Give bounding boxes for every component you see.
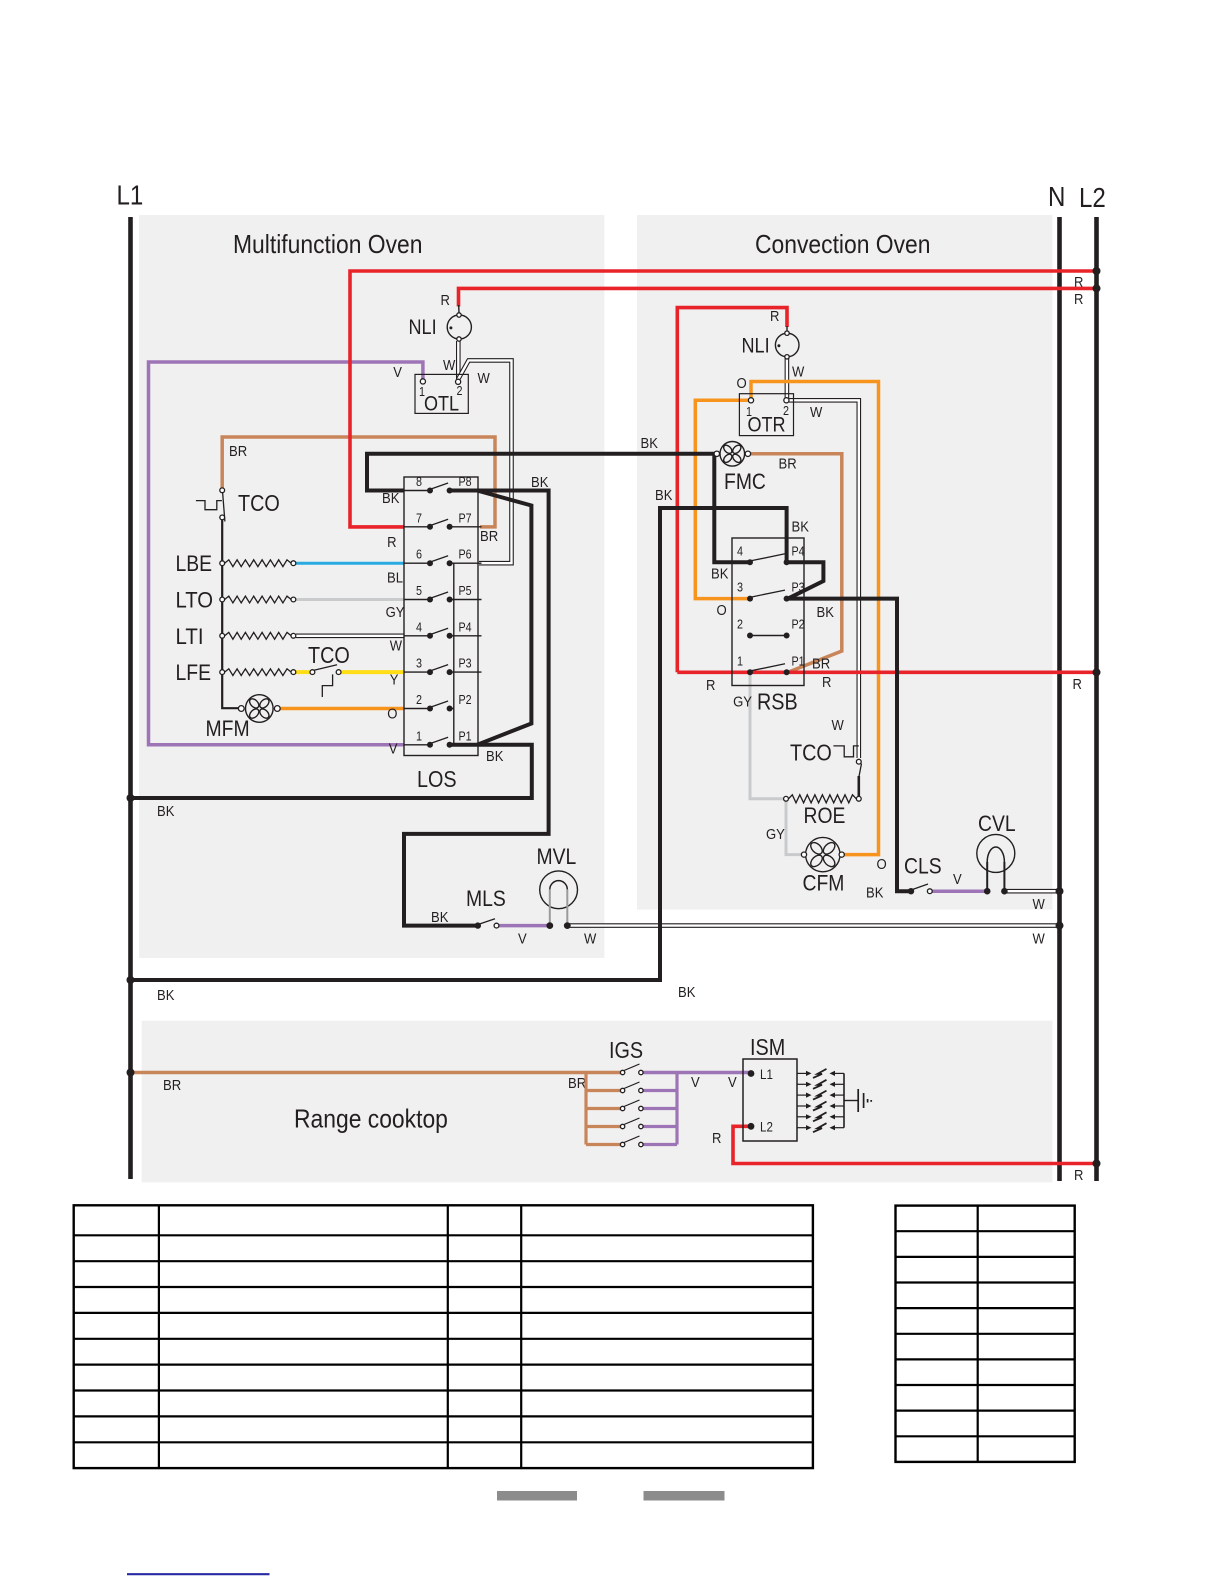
svg-text:P8: P8 (459, 475, 472, 489)
selector switch LOS (404, 475, 482, 792)
oven lamp MVL (537, 844, 578, 929)
svg-text:BR: BR (812, 656, 830, 673)
svg-text:O: O (387, 706, 397, 723)
wire BK L1 to RSB P4 (131, 487, 809, 1004)
wire Y TCO to LOS pin 3 (341, 672, 404, 689)
svg-text:P2: P2 (792, 618, 805, 632)
wire W LTI element to LOS pin 4 (296, 636, 404, 655)
legend table right (896, 1206, 1075, 1462)
svg-text:BR: BR (229, 443, 247, 460)
svg-text:GY: GY (733, 694, 752, 711)
junction L1 BR IGS (127, 1069, 135, 1077)
wire W CVL to N (1004, 891, 1059, 913)
svg-text:V: V (393, 364, 402, 381)
wire W NLI-right to OTR pin 2 (787, 356, 805, 398)
wire BL LBE element to LOS pin 6 (296, 563, 404, 586)
igniter switches IGS (609, 1037, 643, 1147)
junction L2 red second (1093, 284, 1101, 292)
element bus TCO to MFM (222, 519, 239, 709)
svg-text:OTR: OTR (747, 414, 785, 437)
svg-text:W: W (1033, 931, 1046, 948)
svg-text:BK: BK (866, 885, 883, 902)
svg-text:W: W (478, 370, 491, 387)
svg-text:BR: BR (163, 1077, 181, 1094)
relay switch block RSB (732, 538, 805, 715)
svg-text:W: W (792, 364, 805, 381)
svg-text:BK: BK (531, 474, 548, 491)
svg-text:OTL: OTL (424, 393, 459, 416)
heating element ROE (784, 795, 862, 828)
svg-text:R: R (387, 534, 396, 551)
fan motor CFM (801, 837, 844, 895)
wire BK LOS P1 to L1 (131, 745, 532, 820)
svg-text:LBE: LBE (176, 551, 213, 576)
heating element LTO (176, 588, 296, 613)
wire BR FMC to RSB P1 (748, 454, 842, 673)
svg-text:8: 8 (416, 475, 422, 489)
svg-text:P7: P7 (459, 511, 472, 525)
svg-text:TCO: TCO (308, 642, 350, 668)
svg-text:7: 7 (416, 511, 422, 525)
svg-text:Multifunction Oven: Multifunction Oven (233, 229, 423, 259)
thermal cutout TCO2 (308, 642, 350, 697)
svg-text:TCO: TCO (790, 740, 832, 766)
wire GY ROE to CFM (766, 802, 802, 855)
motor MFM (206, 695, 281, 741)
svg-text:1: 1 (416, 729, 422, 743)
rail L1 (117, 180, 144, 1180)
oven lamp CVL (977, 811, 1016, 895)
wire BK LOS P8 to P1 jumper (477, 491, 531, 745)
label Convection Oven (755, 229, 931, 259)
svg-text:MVL: MVL (537, 844, 577, 869)
svg-text:IGS: IGS (609, 1037, 643, 1063)
junction N MVL white (1056, 922, 1064, 930)
svg-text:W: W (1033, 896, 1046, 913)
svg-text:BK: BK (817, 604, 834, 621)
svg-text:L2: L2 (760, 1120, 773, 1135)
svg-text:L2: L2 (1079, 182, 1106, 213)
heating element LFE (176, 660, 296, 685)
wire BR IGS bus (586, 1073, 621, 1145)
svg-text:Convection Oven: Convection Oven (755, 229, 931, 259)
svg-text:2: 2 (416, 693, 422, 707)
spark gaps (797, 1069, 844, 1132)
svg-text:V: V (389, 741, 398, 758)
svg-text:P2: P2 (459, 693, 472, 707)
svg-text:Y: Y (390, 672, 399, 689)
light switch OTR (739, 394, 793, 437)
svg-text:W: W (832, 717, 845, 734)
oven lamp NLI left (409, 313, 472, 341)
svg-text:BK: BK (157, 987, 174, 1004)
svg-text:P1: P1 (459, 729, 472, 743)
svg-text:BR: BR (568, 1075, 586, 1092)
label Range cooktop (294, 1104, 448, 1134)
svg-text:BK: BK (792, 519, 809, 536)
svg-text:2: 2 (737, 618, 743, 632)
svg-text:Range cooktop: Range cooktop (294, 1104, 448, 1134)
junction L2 red RSB (1093, 668, 1101, 676)
convection oven panel (637, 215, 1053, 910)
svg-text:LFE: LFE (176, 660, 212, 685)
svg-text:R: R (1074, 1167, 1083, 1184)
svg-text:N: N (1048, 181, 1065, 212)
svg-text:LTI: LTI (176, 624, 204, 649)
wire O OTR pin 1 to CFM (737, 375, 887, 873)
spark module ISM (743, 1034, 797, 1141)
svg-text:R: R (1074, 291, 1083, 308)
svg-text:BR: BR (480, 528, 498, 545)
heating element LTI (176, 624, 296, 649)
svg-text:CFM: CFM (803, 871, 845, 896)
range cooktop panel (142, 1021, 1053, 1183)
wire V OTL pin 1 to LOS pin 1 (149, 362, 423, 758)
svg-text:BK: BK (678, 984, 695, 1001)
wire BR TCO to LOS P7 (222, 437, 498, 545)
svg-text:GY: GY (386, 604, 405, 621)
svg-text:ISM: ISM (750, 1034, 785, 1060)
wire BK FMC to LOS pin 8 (367, 435, 716, 507)
wire W MVL to N (567, 926, 1060, 948)
light switch MLS (466, 886, 506, 929)
svg-text:3: 3 (416, 657, 422, 671)
label Multifunction Oven (233, 229, 423, 259)
wire V MLS to MVL (497, 926, 550, 948)
svg-text:R: R (770, 308, 779, 325)
svg-text:LTO: LTO (176, 588, 214, 613)
thermal cutout TCO3 (790, 740, 862, 797)
legend table left (74, 1205, 813, 1468)
svg-text:V: V (518, 931, 527, 948)
svg-text:P1: P1 (792, 654, 805, 668)
svg-text:V: V (691, 1074, 700, 1091)
wire BR L1 to IGS (131, 1073, 623, 1095)
svg-text:O: O (717, 602, 727, 619)
svg-text:BL: BL (387, 570, 403, 587)
wire W OTR pin 2 to TCO (789, 400, 859, 758)
junction L2 red ISM (1093, 1160, 1101, 1168)
svg-text:P3: P3 (459, 657, 472, 671)
svg-text:TCO: TCO (238, 490, 280, 516)
wire R ISM L2 to L2 rail (712, 1126, 1097, 1184)
svg-text:BK: BK (655, 487, 672, 504)
svg-text:BK: BK (641, 435, 658, 452)
svg-text:BK: BK (382, 490, 399, 507)
rail N (1048, 181, 1065, 1181)
svg-text:W: W (810, 404, 823, 421)
svg-text:O: O (737, 375, 747, 392)
svg-text:BK: BK (711, 566, 728, 583)
svg-text:W: W (390, 638, 403, 655)
footer blue rule (127, 1573, 270, 1575)
svg-text:R: R (441, 292, 450, 309)
svg-text:BR: BR (779, 456, 797, 473)
svg-text:1: 1 (737, 654, 743, 668)
svg-text:V: V (953, 871, 962, 888)
svg-text:O: O (877, 856, 887, 873)
svg-text:3: 3 (737, 581, 743, 595)
svg-text:L1: L1 (760, 1067, 773, 1082)
junction L1 BK RSB (127, 976, 135, 984)
svg-text:P5: P5 (459, 584, 472, 598)
svg-text:CVL: CVL (978, 811, 1016, 836)
junction L1 BK LOS (127, 794, 135, 802)
wire W NLI-left to OTL pin 2 (456, 341, 461, 379)
svg-text:P6: P6 (459, 548, 472, 562)
svg-text:R: R (706, 677, 715, 694)
svg-text:GY: GY (766, 826, 785, 843)
gray bar 1 (497, 1491, 577, 1501)
svg-text:MFM: MFM (206, 716, 250, 741)
svg-text:BK: BK (431, 909, 448, 926)
svg-text:W: W (443, 357, 456, 374)
svg-text:ROE: ROE (804, 803, 846, 828)
wire R LOS pin 7 to L2 (350, 271, 1097, 551)
svg-text:5: 5 (416, 584, 422, 598)
svg-text:FMC: FMC (724, 469, 766, 494)
wire R NLI-right to RSB pin 1 to L2 (677, 308, 1096, 694)
fan motor FMC (714, 442, 766, 495)
svg-text:P3: P3 (792, 581, 805, 595)
svg-text:BK: BK (157, 803, 174, 820)
svg-text:4: 4 (416, 620, 422, 634)
junction L2 red top (1093, 267, 1101, 275)
light switch CLS (904, 854, 942, 895)
multifunction oven panel (139, 215, 604, 958)
svg-text:V: V (728, 1074, 737, 1091)
svg-text:RSB: RSB (757, 689, 798, 715)
heating element LBE (176, 551, 296, 576)
svg-text:6: 6 (416, 548, 422, 562)
svg-text:MLS: MLS (466, 886, 506, 911)
wire BK FMC to RSB pin 4 (711, 454, 748, 583)
wire BK LOS P8 to MLS (404, 474, 549, 926)
wire GY LTO element to LOS pin 5 (296, 600, 405, 622)
svg-text:4: 4 (737, 544, 743, 558)
svg-text:R: R (1073, 676, 1082, 693)
svg-text:NLI: NLI (742, 335, 770, 358)
svg-text:BK: BK (486, 748, 503, 765)
svg-text:CLS: CLS (904, 854, 942, 879)
wire W OTL pin 2 to LOS P6 (443, 357, 512, 563)
wire R NLI-left to L2 (441, 288, 1097, 313)
svg-text:R: R (822, 674, 831, 691)
chassis ground (844, 1089, 871, 1112)
thermal cutout TCO1 (196, 488, 280, 522)
wire GY RSB pin1 to ROE (733, 674, 783, 799)
svg-text:P4: P4 (459, 620, 472, 634)
wire BK RSB P3 to CLS (787, 599, 909, 902)
junction N CVL white (1056, 887, 1064, 895)
oven lamp NLI right (742, 331, 800, 359)
light switch OTL (415, 374, 468, 415)
svg-text:R: R (712, 1130, 721, 1147)
svg-text:P4: P4 (792, 544, 805, 558)
svg-text:L1: L1 (117, 180, 144, 211)
wire Y LFE element to TCO (296, 670, 310, 674)
wire O OTR pin 1 to RSB pin 3 (695, 400, 749, 619)
gray bar 2 (644, 1491, 725, 1501)
svg-text:NLI: NLI (409, 316, 437, 339)
wire BK RSB P4 to P3 jumper (787, 562, 824, 598)
wire O MFM to LOS pin 2 (280, 706, 404, 723)
svg-text:W: W (584, 931, 597, 948)
svg-text:LOS: LOS (417, 766, 457, 792)
wire V CLS to CVL (931, 871, 987, 891)
wire V IGS to ISM L1 (642, 1073, 752, 1145)
rail L2 (1079, 182, 1106, 1181)
